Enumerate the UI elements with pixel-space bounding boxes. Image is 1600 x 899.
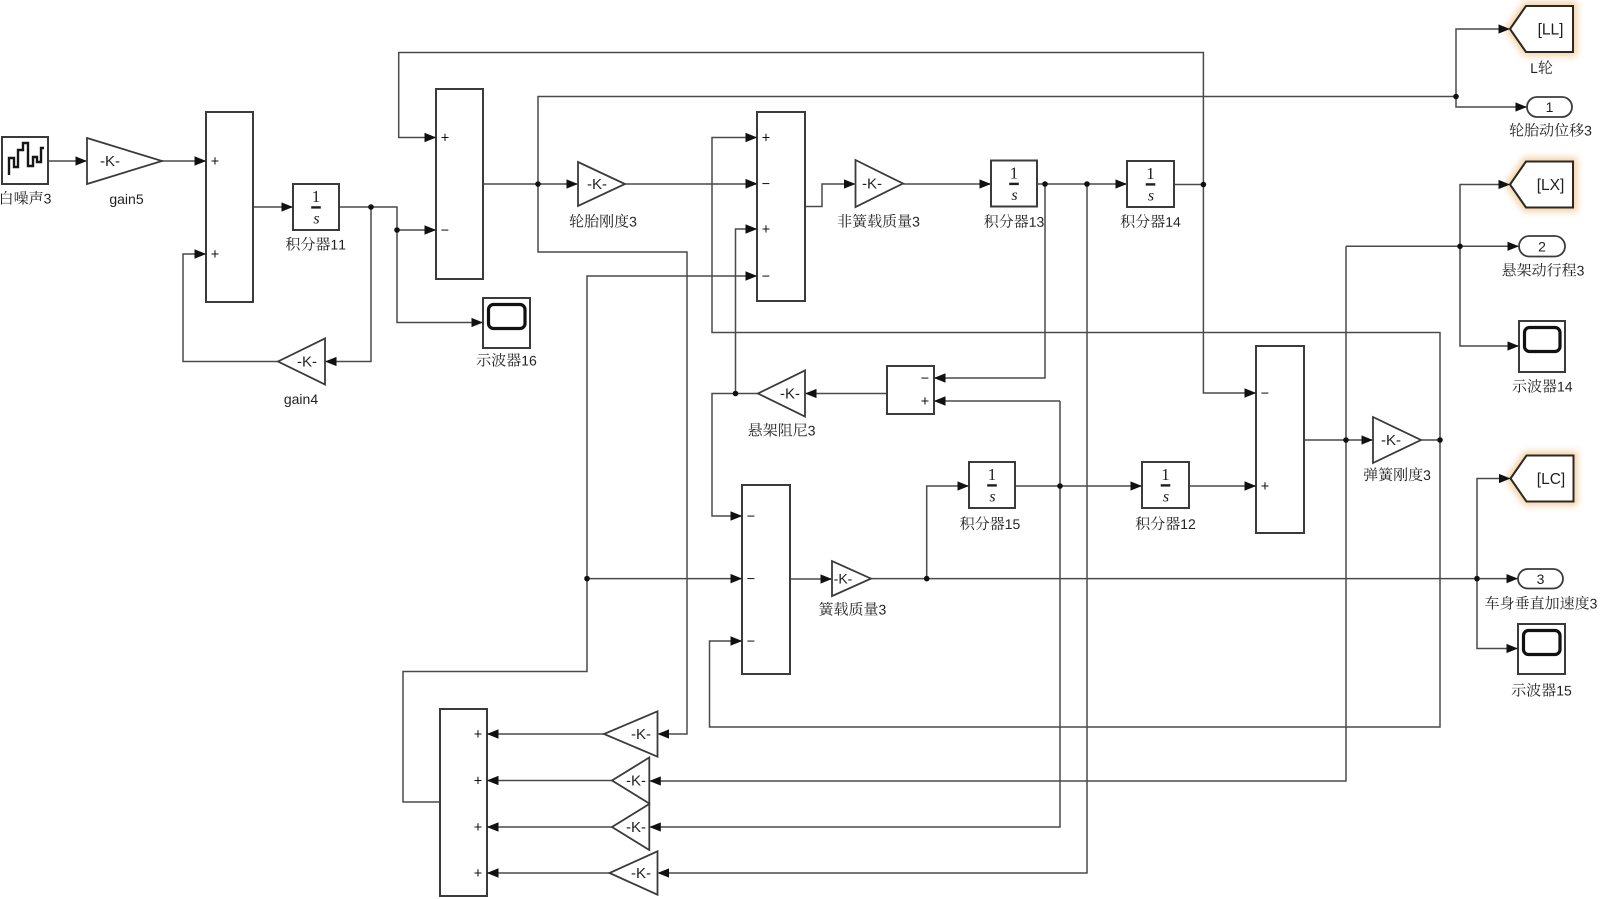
svg-text:+: + <box>1261 479 1269 495</box>
svg-text:+: + <box>474 820 482 836</box>
svg-text:1: 1 <box>1146 164 1155 183</box>
gain block gain D <box>610 851 658 894</box>
label 积分器11 <box>286 237 345 251</box>
svg-text:-K-: -K- <box>631 865 651 882</box>
gain block gain A (tire stiffness feedback) <box>604 711 658 756</box>
svg-text:1: 1 <box>1546 99 1554 115</box>
gain block gain B <box>612 758 649 804</box>
svg-text:[LX]: [LX] <box>1537 177 1565 194</box>
wire junction -> 示波器14 <box>1460 246 1518 346</box>
wire top rail -> outport 1 <box>1456 97 1526 108</box>
svg-text:-K-: -K- <box>834 571 853 587</box>
svg-text:−: − <box>747 634 755 650</box>
svg-text:s: s <box>1163 489 1169 506</box>
svg-text:-K-: -K- <box>631 726 651 743</box>
svg-text:-K-: -K- <box>100 153 120 170</box>
svg-text:−: − <box>762 269 770 285</box>
sum block sum2 (tire deflection) <box>425 89 484 279</box>
gain block gain C <box>612 804 649 850</box>
svg-text:[LL]: [LL] <box>1538 22 1564 39</box>
wire sum4 output -> sum3 port4 (suspension force) <box>403 276 756 802</box>
wire tire deflection down -> gain A input <box>538 184 687 734</box>
wire 弹簧刚度3 spring force up rail y=332.5 -> sum3 port1 <box>712 138 1440 441</box>
label 积分器15 <box>960 516 1020 530</box>
wire unsprung displacement down -> tall sum port1 <box>1203 185 1255 394</box>
label L轮 <box>1531 60 1552 74</box>
wire 积分器14 -> junction (unsprung displacement) <box>1174 184 1203 186</box>
gain block 轮胎刚度3 <box>578 162 625 206</box>
svg-text:+: + <box>211 247 219 263</box>
svg-text:−: − <box>747 572 755 588</box>
wire spring force down rail y=727 -> 簧载sum port3 <box>710 440 1441 727</box>
label 示波器15 <box>1512 683 1572 697</box>
svg-text:+: + <box>474 774 482 790</box>
svg-text:-K-: -K- <box>626 819 646 836</box>
wire damper force -> 簧载sum port1 <box>712 394 758 517</box>
wire suspension force -> 簧载sum port2 <box>587 578 741 580</box>
label 悬架动行程3 <box>1502 263 1584 277</box>
goto tag [LX] <box>1510 162 1573 208</box>
wire sprung acceleration up -> 积分器15 <box>927 486 968 579</box>
wire unsprung velocity down -> gain D input <box>659 184 1087 873</box>
integrator block 积分器14 <box>1127 161 1174 207</box>
sum block sum1 (road model) <box>195 112 254 302</box>
sum block small (damper velocity diff) <box>887 366 946 414</box>
label 积分器13 <box>984 214 1043 228</box>
svg-text:2: 2 <box>1538 238 1546 254</box>
wire 非簧载质量3 -> 积分器13 <box>903 183 990 185</box>
output port 1 轮胎动位移3 <box>1527 97 1572 117</box>
wire gain B -> sum4 port2 <box>488 780 612 782</box>
svg-text:1: 1 <box>1010 164 1019 183</box>
svg-text:-K-: -K- <box>587 176 607 193</box>
sum block sum4 (force summation) <box>440 709 499 896</box>
wire junction -> goto [LC] <box>1477 479 1510 579</box>
svg-text:+: + <box>474 727 482 743</box>
svg-text:-K-: -K- <box>862 176 882 193</box>
gain block 弹簧刚度3 <box>1373 417 1421 463</box>
svg-text:1: 1 <box>312 187 321 206</box>
integrator block 积分器15 <box>969 462 1015 508</box>
wire junction -> gain4 input (feedback) <box>326 207 371 362</box>
svg-text:gain4: gain4 <box>284 391 318 407</box>
wire 簧载sum -> 簧载质量3 <box>790 578 831 580</box>
svg-text:−: − <box>921 371 929 387</box>
wire 轮胎刚度3 -> sum3 port2 <box>625 183 756 185</box>
svg-text:s: s <box>989 489 995 506</box>
label 示波器16 <box>477 353 537 367</box>
svg-text:gain5: gain5 <box>109 191 143 207</box>
svg-text:+: + <box>762 131 770 147</box>
svg-text:1: 1 <box>988 465 997 484</box>
label 车身垂直加速度3 <box>1485 596 1597 610</box>
svg-text:1: 1 <box>1161 465 1170 484</box>
wire suspension deflection -> outport 2 <box>1346 245 1518 247</box>
wire top rail -> goto [LL] <box>1456 29 1509 97</box>
wire suspension deflection rail x=1346 -> gain B input <box>650 246 1346 781</box>
svg-text:[LC]: [LC] <box>1537 471 1565 488</box>
svg-text:+: + <box>441 131 449 147</box>
wire gain4 -> sum1 port2 <box>183 254 278 362</box>
wire 积分器11 -> sum2 port2 (road displacement) <box>339 207 435 230</box>
label 悬架阻尼3 <box>748 423 815 437</box>
wire small sum -> 悬架阻尼3 <box>806 393 887 395</box>
svg-text:+: + <box>762 222 770 238</box>
wire 白噪声3 -> gain5 <box>48 160 86 162</box>
svg-text:−: − <box>1261 386 1269 402</box>
goto tag [LL] <box>1510 6 1573 52</box>
scope block 示波器16 <box>483 298 530 348</box>
wire tire deflection up to top rail y=96.5 <box>538 97 1456 185</box>
label 弹簧刚度3 <box>1364 467 1431 481</box>
svg-text:−: − <box>441 223 449 239</box>
svg-text:+: + <box>211 154 219 170</box>
label 示波器14 <box>1513 379 1573 393</box>
gain block gain5 <box>87 138 162 184</box>
wire sum3 -> 非簧载质量3 <box>805 184 854 207</box>
svg-text:s: s <box>1148 188 1154 205</box>
gain block gain4 <box>278 339 325 385</box>
wire sprung velocity -> small sum plus port <box>935 400 1060 402</box>
wire gain A -> sum4 port1 <box>488 733 604 735</box>
wire sum2 -> 轮胎刚度3 (tire deflection) <box>483 183 577 185</box>
wire 积分器15 -> 积分器12 (sprung velocity) <box>1015 485 1141 487</box>
wire 积分器13 output down -> small sum minus port <box>935 184 1045 378</box>
label 簧载质量3 <box>819 602 886 616</box>
label 积分器12 <box>1136 516 1195 530</box>
wire sum1 -> 积分器11 <box>253 206 292 208</box>
sum block tall (suspension deflection) <box>1245 346 1305 533</box>
wire junction -> 示波器16 <box>397 230 482 323</box>
goto tag [LC] <box>1511 456 1574 502</box>
integrator block 积分器11 <box>293 184 339 230</box>
source block 白噪声3 (band-limited white noise) <box>2 137 48 184</box>
wire 积分器13 -> 积分器14 (unsprung velocity) <box>1037 183 1126 185</box>
label 非簧载质量3 <box>838 214 920 228</box>
label 轮胎动位移3 <box>1510 123 1592 137</box>
wire sprung acceleration -> outport 3 rail <box>871 578 1517 580</box>
svg-text:s: s <box>313 211 319 228</box>
integrator block 积分器13 <box>991 161 1037 207</box>
svg-text:−: − <box>747 509 755 525</box>
svg-text:-K-: -K- <box>626 773 646 790</box>
svg-text:+: + <box>921 394 929 410</box>
svg-text:-K-: -K- <box>1381 432 1401 449</box>
svg-text:s: s <box>1011 187 1017 204</box>
wire junction -> goto [LX] <box>1460 185 1509 247</box>
wire gain D -> sum4 port4 <box>488 872 610 874</box>
label 白噪声3 <box>1 191 51 205</box>
svg-text:-K-: -K- <box>780 386 800 403</box>
output port 3 车身垂直加速度3 <box>1518 569 1563 589</box>
wire unsprung displacement top rail y=52.5 -> sum2 port1 <box>399 53 1204 185</box>
wire gain5 -> sum1 port1 <box>162 160 205 162</box>
svg-text:+: + <box>474 866 482 882</box>
sum block 簧载 (sprung mass eq) <box>731 485 791 674</box>
gain block 悬架阻尼3 <box>758 371 805 417</box>
scope block 示波器14 <box>1519 321 1565 372</box>
output port 2 悬架动行程3 <box>1519 236 1565 257</box>
sum block sum3 (unsprung mass eq) <box>746 112 806 301</box>
wire sprung velocity down -> gain C input <box>650 401 1060 827</box>
gain block 非簧载质量3 <box>856 160 904 207</box>
label 积分器14 <box>1121 214 1181 228</box>
gain block 簧载质量3 <box>832 561 871 596</box>
svg-text:-K-: -K- <box>297 354 317 371</box>
wire gain C -> sum4 port3 <box>488 826 612 828</box>
wire damper force up -> sum3 port3 <box>736 229 757 394</box>
wire tall sum -> 弹簧刚度3 (suspension deflection) <box>1304 439 1372 441</box>
scope block 示波器15 <box>1518 624 1565 674</box>
wire junction -> 示波器15 <box>1477 579 1517 649</box>
label 轮胎刚度3 <box>570 214 637 228</box>
integrator block 积分器12 <box>1142 462 1189 508</box>
svg-text:−: − <box>762 177 770 193</box>
wire 积分器12 -> tall sum port2 (sprung displacement) <box>1189 485 1255 487</box>
svg-text:3: 3 <box>1537 571 1545 587</box>
